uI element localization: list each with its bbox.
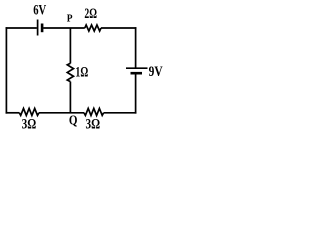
- svg-text:9V: 9V: [149, 64, 163, 80]
- svg-text:1Ω: 1Ω: [75, 64, 88, 80]
- svg-text:3Ω: 3Ω: [86, 117, 101, 133]
- svg-text:2Ω: 2Ω: [84, 6, 97, 22]
- svg-text:6V: 6V: [33, 3, 46, 19]
- svg-text:P: P: [67, 12, 73, 24]
- svg-text:3Ω: 3Ω: [22, 117, 37, 133]
- svg-text:Q: Q: [69, 112, 78, 127]
